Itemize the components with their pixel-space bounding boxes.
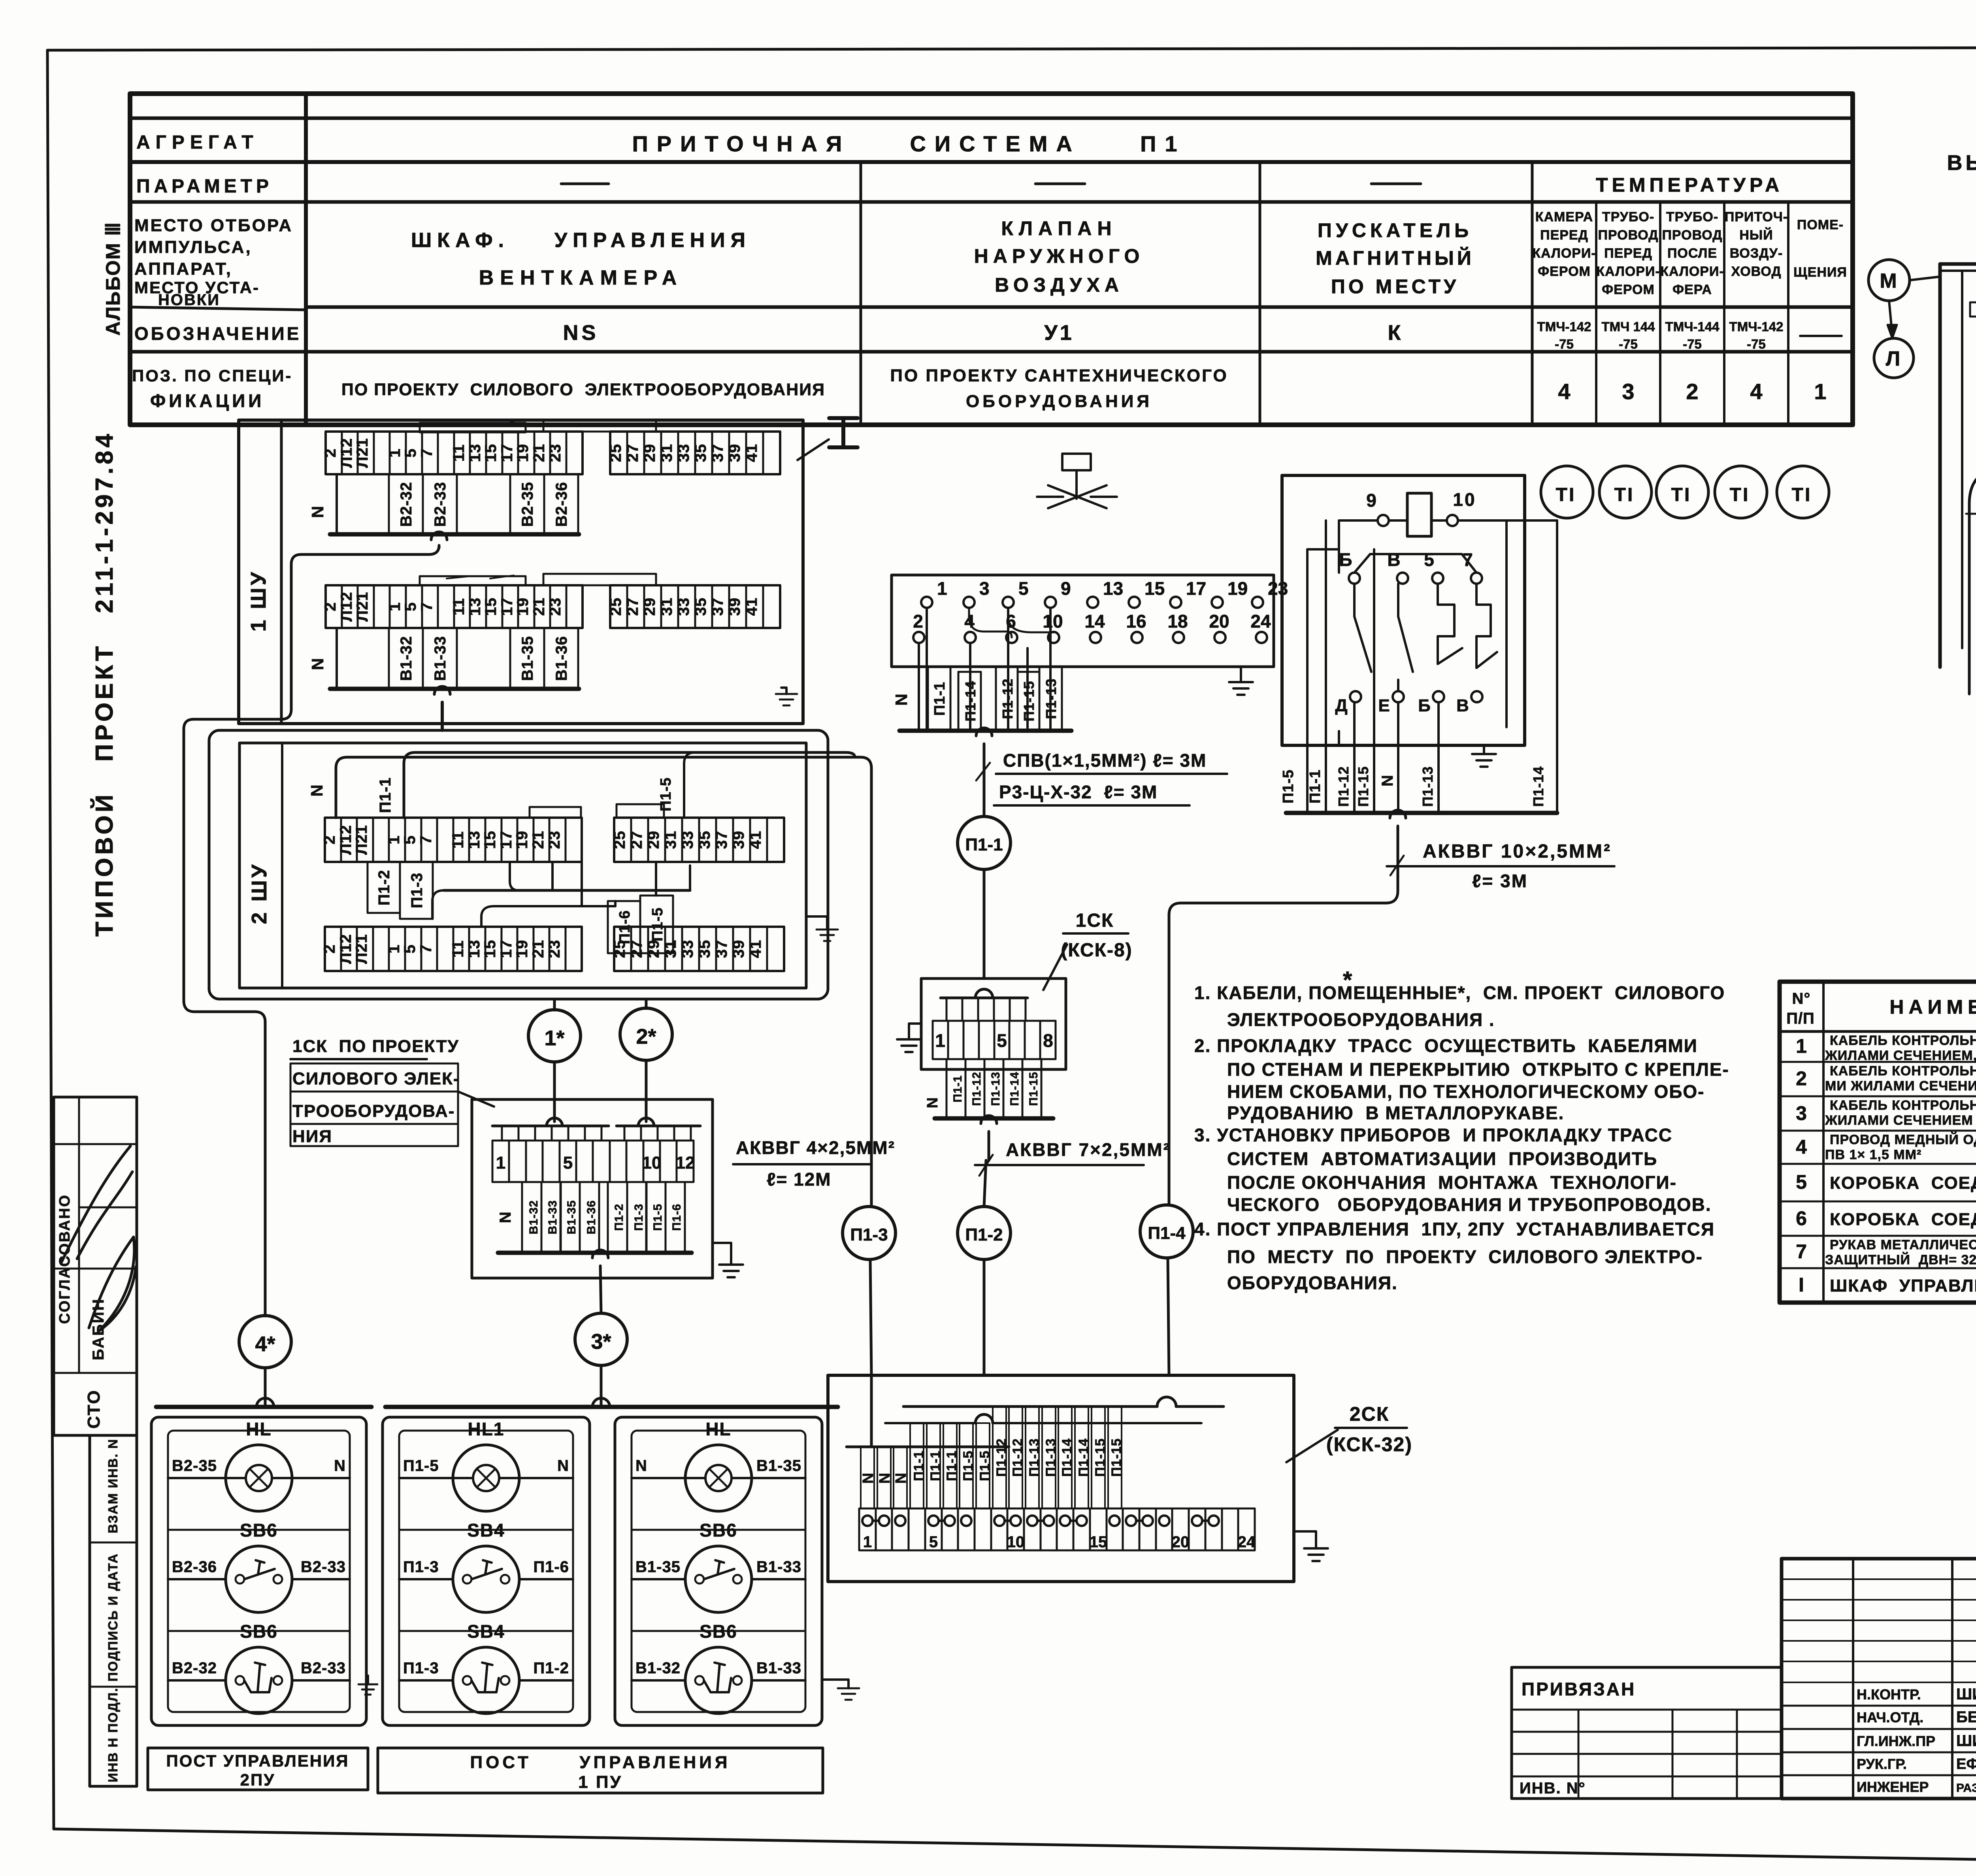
svg-text:П1-3: П1-3 — [408, 873, 426, 909]
svg-text:воздуха: воздуха — [995, 274, 1124, 296]
svg-text:П1-15: П1-15 — [1021, 681, 1037, 722]
post circle 4* — [239, 1316, 291, 1368]
title block signature grid — [1852, 1559, 1854, 1799]
svg-text:В2-32: В2-32 — [172, 1659, 217, 1677]
strip X2 bottom bus — [330, 687, 579, 691]
svg-text:39: 39 — [726, 598, 743, 616]
svg-text:Н.контр.: Н.контр. — [1857, 1686, 1921, 1703]
svg-text:4*: 4* — [255, 1332, 275, 1356]
svg-text:В1-33: В1-33 — [756, 1659, 801, 1677]
svg-text:8: 8 — [1043, 1030, 1053, 1051]
svg-text:трубо-: трубо- — [1602, 209, 1654, 224]
svg-text:Кабель контрольный с алюминиев: Кабель контрольный с алюминиевы- — [1830, 1063, 1976, 1078]
wire XB to post 3* — [592, 1250, 608, 1258]
svg-text:11: 11 — [449, 940, 467, 958]
2ShU jumper comb upper — [530, 807, 581, 818]
svg-text:защитный Двн= 32мм: защитный Двн= 32мм — [1825, 1252, 1976, 1267]
2ShU ground — [806, 916, 827, 930]
svg-text:7: 7 — [1796, 1241, 1807, 1263]
svg-text:П1-15: П1-15 — [1027, 1072, 1040, 1106]
svg-text:33: 33 — [675, 598, 692, 616]
svg-text:31: 31 — [658, 598, 675, 616]
svg-text:1: 1 — [385, 835, 403, 844]
svg-text:7: 7 — [417, 944, 435, 953]
svg-text:Камера: Камера — [1535, 209, 1593, 224]
relay box U1 body — [1282, 475, 1525, 745]
svg-text:I: I — [1799, 1274, 1804, 1296]
parts table grid — [1780, 982, 1976, 1303]
XB terminal cells — [492, 1141, 694, 1182]
svg-text:П1-1: П1-1 — [931, 682, 948, 716]
svg-text:14: 14 — [1084, 611, 1105, 632]
svg-text:N: N — [334, 1457, 346, 1474]
svg-text:HL: HL — [705, 1419, 731, 1439]
strip X1 label boxes B2-32 B2-33 B2-35 B2-36 — [389, 474, 423, 534]
svg-text:3. Установку приборов и прокл: 3. Установку приборов и прокладку трасс — [1194, 1125, 1672, 1145]
svg-text:N: N — [860, 1473, 877, 1484]
svg-text:29: 29 — [641, 598, 658, 616]
svg-text:-75: -75 — [1683, 337, 1702, 351]
U1 wires down with labels — [1306, 549, 1309, 813]
svg-text:В1-33: В1-33 — [546, 1200, 559, 1235]
svg-text:П1-14: П1-14 — [1008, 1072, 1021, 1106]
cable circle P1-3 — [843, 1207, 896, 1259]
cable circle P1-4 — [1140, 1205, 1193, 1258]
strip X1 bottom bus — [330, 532, 579, 537]
svg-text:4: 4 — [1558, 379, 1570, 404]
stamp block Согласовано — [54, 1097, 137, 1435]
svg-text:39: 39 — [730, 831, 747, 849]
svg-text:N: N — [308, 658, 327, 670]
svg-text:Привязан: Привязан — [1522, 1679, 1636, 1699]
svg-text:П1-1: П1-1 — [377, 777, 394, 813]
svg-text:3: 3 — [1622, 379, 1634, 404]
svg-text:П1-5: П1-5 — [977, 1450, 992, 1481]
svg-text:П1-15: П1-15 — [1093, 1438, 1108, 1477]
svg-text:20: 20 — [1172, 1533, 1190, 1551]
svg-text:В2-36: В2-36 — [553, 482, 570, 527]
svg-text:В2-33: В2-33 — [432, 482, 449, 527]
svg-text:Пускатель: Пускатель — [1318, 219, 1473, 241]
svg-text:П1-12: П1-12 — [1335, 766, 1352, 807]
svg-text:15: 15 — [482, 598, 500, 616]
svg-text:возду-: возду- — [1730, 246, 1783, 261]
svg-text:У1: У1 — [1044, 321, 1074, 345]
svg-text:пост управления: пост управления — [166, 1752, 349, 1770]
svg-text:П1-13: П1-13 — [1420, 766, 1436, 807]
svg-text:5: 5 — [1018, 578, 1029, 599]
svg-text:ПОДПИСЬ И ДАТА: ПОДПИСЬ И ДАТА — [106, 1553, 120, 1682]
connector XT odd pin circles — [921, 597, 932, 608]
svg-text:П1-6: П1-6 — [533, 1558, 569, 1576]
svg-text:SB6: SB6 — [240, 1520, 277, 1540]
svg-text:Инв. N°: Инв. N° — [1520, 1780, 1586, 1797]
svg-text:17: 17 — [498, 598, 516, 616]
post element HL — [226, 1445, 292, 1511]
svg-text:Место отбора: Место отбора — [134, 216, 293, 235]
svg-text:1: 1 — [863, 1533, 872, 1551]
svg-text:Агрегат: Агрегат — [136, 132, 259, 153]
svg-text:15: 15 — [481, 831, 499, 849]
cabinet 1ShU ground — [781, 688, 786, 694]
svg-text:21: 21 — [530, 444, 548, 462]
svg-text:13: 13 — [466, 940, 483, 958]
post ground symbols — [367, 1676, 369, 1684]
svg-text:Шкаф. управления: Шкаф. управления — [411, 229, 751, 252]
svg-text:2: 2 — [913, 611, 923, 632]
svg-text:Д: Д — [1335, 696, 1349, 715]
svg-text:электрооборудования .: электрооборудования . — [1227, 1009, 1495, 1030]
svg-text:трооборудова-: трооборудова- — [292, 1101, 455, 1121]
svg-text:П1-5: П1-5 — [651, 1204, 664, 1231]
svg-text:41: 41 — [743, 598, 760, 616]
svg-text:Б: Б — [1418, 696, 1432, 715]
svg-text:37: 37 — [713, 831, 730, 849]
svg-text:N: N — [877, 1473, 893, 1484]
svg-text:В: В — [1456, 696, 1471, 715]
svg-text:Кабель контрольный с алюминиев: Кабель контрольный с алюминиевыми — [1830, 1097, 1976, 1113]
svg-text:П1-13: П1-13 — [1043, 1438, 1058, 1477]
svg-text:19: 19 — [513, 940, 531, 958]
svg-text:29: 29 — [641, 444, 658, 462]
svg-text:Л12: Л12 — [338, 592, 355, 622]
svg-text:клапан: клапан — [1001, 217, 1117, 239]
svg-text:1ск по проекту: 1ск по проекту — [292, 1037, 459, 1056]
svg-text:25: 25 — [607, 444, 624, 462]
svg-text:В1-35: В1-35 — [635, 1558, 681, 1576]
svg-text:5: 5 — [563, 1153, 573, 1173]
svg-text:П1-3: П1-3 — [850, 1225, 888, 1244]
svg-text:венткамера: венткамера — [479, 266, 683, 289]
svg-text:10: 10 — [1007, 1533, 1025, 1551]
U1 bottom bus — [1286, 811, 1557, 815]
svg-text:П1-12: П1-12 — [994, 1438, 1009, 1477]
svg-text:П1-12: П1-12 — [1010, 1438, 1025, 1477]
svg-text:П1-5: П1-5 — [961, 1450, 976, 1481]
post element SB4 — [453, 1647, 519, 1714]
svg-text:ми жилами сечением 2,5мм²: ми жилами сечением 2,5мм² — [1825, 1078, 1976, 1094]
svg-text:ния: ния — [292, 1127, 332, 1146]
svg-text:трубо-: трубо- — [1666, 209, 1718, 224]
svg-text:23: 23 — [547, 598, 564, 616]
svg-text:П1-5: П1-5 — [649, 907, 666, 941]
axis arrow M to L — [1889, 301, 1892, 334]
svg-text:N: N — [557, 1457, 569, 1474]
svg-text:N: N — [1379, 775, 1396, 786]
svg-text:П1-13: П1-13 — [989, 1072, 1002, 1106]
svg-text:5: 5 — [929, 1533, 938, 1551]
svg-text:Приточная система П1: Приточная система П1 — [632, 131, 1186, 156]
svg-text:9: 9 — [1366, 490, 1378, 511]
svg-text:П1-14: П1-14 — [1060, 1438, 1075, 1477]
svg-text:5: 5 — [402, 602, 419, 611]
svg-text:рудованию в металлорукаве.: рудованию в металлорукаве. — [1227, 1103, 1564, 1123]
svg-text:3: 3 — [979, 578, 990, 599]
svg-text:21: 21 — [530, 831, 547, 849]
svg-text:Выкопировка из плана венткам: Выкопировка из плана венткамеры — [1947, 151, 1976, 175]
svg-text:ТМЧ-142: ТМЧ-142 — [1729, 319, 1784, 334]
U1 lower contacts — [1350, 691, 1361, 702]
svg-text:ческого оборудования и трубо: ческого оборудования и трубопроводов. — [1227, 1194, 1712, 1215]
svg-text:фера: фера — [1672, 282, 1712, 297]
svg-text:15: 15 — [481, 940, 499, 958]
svg-text:27: 27 — [624, 598, 641, 616]
svg-text:По проекту силового электроо: По проекту силового электрооборудования — [341, 380, 825, 399]
svg-text:N: N — [308, 505, 327, 518]
svg-text:2. Прокладку трасс осуществи: 2. Прокладку трасс осуществить кабелями — [1194, 1035, 1698, 1056]
svg-text:SB4: SB4 — [467, 1621, 505, 1642]
svg-text:Коробка соединительная: Коробка соединительная — [1830, 1173, 1976, 1193]
U1 inner frame wires — [1338, 520, 1340, 573]
U1 coil and pins 9 10 — [1407, 493, 1431, 536]
svg-text:П1-5: П1-5 — [1280, 769, 1297, 803]
svg-text:В2-36: В2-36 — [172, 1558, 217, 1576]
connector XT ground — [1240, 667, 1242, 682]
2SK ground — [1294, 1531, 1316, 1548]
svg-text:7: 7 — [418, 448, 436, 457]
svg-text:Провод медный одножильный: Провод медный одножильный — [1830, 1132, 1976, 1147]
terminal strip X1 upper cells — [326, 432, 583, 474]
svg-text:ховод: ховод — [1731, 264, 1781, 279]
connector XT wires down with labels — [918, 643, 920, 731]
svg-text:П1-1: П1-1 — [965, 835, 1003, 854]
2ShU strip lower cells — [325, 927, 582, 971]
svg-text:23: 23 — [547, 444, 564, 462]
svg-text:5: 5 — [1424, 549, 1436, 570]
svg-text:Гл.инж.пр: Гл.инж.пр — [1857, 1733, 1935, 1749]
svg-text:33: 33 — [679, 831, 696, 849]
svg-text:16: 16 — [1126, 611, 1146, 632]
svg-text:В2-35: В2-35 — [172, 1457, 217, 1474]
svg-text:перед: перед — [1604, 246, 1652, 261]
wire U1 bus to P1-4 — [1390, 810, 1406, 818]
svg-text:ℓ= 12м: ℓ= 12м — [767, 1169, 832, 1190]
1SK top bus and comb — [975, 989, 993, 998]
svg-text:41: 41 — [743, 444, 760, 462]
svg-text:10: 10 — [1043, 611, 1063, 632]
2ShU label boxes P1-2 P1-3 — [368, 862, 400, 913]
svg-text:35: 35 — [696, 940, 713, 958]
post enclosure — [615, 1417, 822, 1725]
svg-text:Параметр: Параметр — [136, 176, 273, 197]
svg-text:1: 1 — [937, 578, 947, 599]
1SK terminal cells — [933, 1021, 1056, 1059]
designator I with leader (1ShU) — [798, 439, 829, 460]
svg-text:4. Пост управления 1ПУ, 2ПУ: 4. Пост управления 1ПУ, 2ПУ устанавливае… — [1194, 1219, 1715, 1239]
page border frame — [47, 47, 1976, 50]
svg-text:В1-33: В1-33 — [756, 1558, 801, 1576]
svg-text:29: 29 — [645, 831, 662, 849]
svg-text:П1-3: П1-3 — [403, 1659, 439, 1677]
svg-text:П1-14: П1-14 — [1530, 766, 1546, 807]
svg-text:калори-: калори- — [1532, 246, 1596, 261]
svg-text:Инженер: Инженер — [1857, 1779, 1929, 1795]
svg-text:(КСК-32): (КСК-32) — [1326, 1433, 1412, 1456]
strip X1 wire N — [336, 474, 338, 534]
svg-text:нием скобами, по технологическ: нием скобами, по технологическому обо- — [1227, 1081, 1704, 1102]
svg-text:39: 39 — [726, 444, 743, 462]
svg-text:41: 41 — [747, 831, 764, 849]
svg-text:27: 27 — [628, 831, 645, 849]
svg-text:2: 2 — [1686, 379, 1698, 404]
post element HL — [685, 1445, 752, 1511]
svg-text:ℓ= 3м: ℓ= 3м — [1472, 871, 1528, 891]
svg-text:Нач.отд.: Нач.отд. — [1857, 1709, 1923, 1725]
cable circle P1-1 — [958, 816, 1011, 869]
svg-text:1*: 1* — [544, 1026, 564, 1050]
svg-text:фикации: фикации — [150, 390, 264, 411]
svg-text:Шилов: Шилов — [1956, 1686, 1976, 1703]
svg-text:1: 1 — [935, 1030, 945, 1051]
svg-text:П1-1: П1-1 — [951, 1075, 964, 1103]
post enclosure — [151, 1417, 366, 1725]
svg-text:2: 2 — [322, 602, 339, 611]
svg-text:10: 10 — [1453, 489, 1476, 510]
svg-text:после окончания монтажа техн: после окончания монтажа технологи- — [1227, 1172, 1677, 1193]
svg-text:35: 35 — [692, 598, 709, 616]
svg-text:Шилов: Шилов — [1956, 1732, 1976, 1750]
svg-text:2пу: 2пу — [240, 1770, 275, 1789]
svg-text:АКВВГ 10×2,5мм²: АКВВГ 10×2,5мм² — [1423, 841, 1612, 862]
svg-text:В2-33: В2-33 — [301, 1558, 346, 1576]
signature scrawl — [79, 1207, 137, 1209]
svg-text:П1-1: П1-1 — [911, 1450, 926, 1481]
wire risers to posts 1* 2* — [553, 999, 556, 1010]
XB bottom bus — [498, 1251, 692, 1255]
cable circle P1-2 — [958, 1207, 1011, 1259]
svg-text:31: 31 — [662, 831, 679, 849]
svg-text:37: 37 — [713, 940, 730, 958]
connector XT internal jumpers — [969, 608, 1012, 637]
svg-text:25: 25 — [611, 940, 628, 958]
svg-text:35: 35 — [692, 444, 709, 462]
svg-text:N: N — [497, 1211, 514, 1223]
svg-text:(КСК-8): (КСК-8) — [1061, 940, 1132, 961]
svg-text:12: 12 — [676, 1153, 695, 1173]
svg-text:NS: NS — [563, 321, 599, 345]
svg-text:по месту по проекту силово: по месту по проекту силового электро- — [1227, 1246, 1703, 1267]
plan air handling unit train — [1966, 513, 1976, 515]
svg-text:П1-14: П1-14 — [962, 681, 979, 722]
svg-text:Л: Л — [1886, 347, 1902, 370]
svg-text:2 шу: 2 шу — [247, 862, 271, 924]
svg-text:Л21: Л21 — [353, 934, 370, 964]
svg-text:N: N — [893, 1473, 909, 1484]
svg-text:33: 33 — [675, 444, 692, 462]
2ShU internal jumper wires — [444, 889, 690, 892]
svg-text:17: 17 — [1186, 578, 1206, 599]
svg-text:2*: 2* — [636, 1025, 656, 1048]
connector XT bottom bus — [899, 729, 1071, 733]
title block main frame — [1782, 1559, 1976, 1799]
svg-text:П1-5: П1-5 — [403, 1457, 439, 1474]
svg-text:Шкаф управления: Шкаф управления — [1830, 1276, 1976, 1295]
svg-text:по стенам и перекрытию открыт: по стенам и перекрытию открыто с крепле- — [1227, 1059, 1729, 1080]
U1 upper contacts — [1349, 573, 1360, 584]
cabinet 2ShU outer box — [209, 730, 828, 999]
post 2PU box — [156, 1405, 371, 1409]
connector XT even pin circles — [913, 632, 924, 643]
svg-text:по месту: по месту — [1331, 275, 1459, 298]
U1 switch blades — [1354, 584, 1371, 672]
svg-text:П1-1: П1-1 — [928, 1450, 943, 1481]
svg-text:23: 23 — [546, 940, 563, 958]
svg-text:15: 15 — [1144, 578, 1165, 599]
svg-text:щения: щения — [1793, 265, 1847, 280]
parameter table grid — [130, 94, 1853, 425]
1SK ground — [909, 1024, 921, 1039]
svg-text:1. Кабели, помещенные*, см. п: 1. Кабели, помещенные*, см. проект силов… — [1194, 982, 1725, 1003]
svg-text:В1-36: В1-36 — [585, 1200, 598, 1235]
svg-text:ТМЧ-144: ТМЧ-144 — [1665, 319, 1720, 334]
svg-text:N°: N° — [1792, 990, 1811, 1007]
svg-text:В: В — [1387, 549, 1402, 570]
svg-text:10: 10 — [642, 1153, 662, 1173]
post 1PU title box — [378, 1748, 823, 1793]
svg-text:23: 23 — [1268, 578, 1288, 599]
svg-text:п/п: п/п — [1786, 1010, 1815, 1027]
svg-text:В2-33: В2-33 — [301, 1659, 346, 1677]
svg-text:ТI: ТI — [1671, 485, 1691, 505]
svg-text:ТI: ТI — [1614, 485, 1635, 505]
svg-text:БАБИН: БАБИН — [90, 1298, 107, 1361]
svg-text:П1-15: П1-15 — [1355, 766, 1371, 807]
svg-text:В2-32: В2-32 — [398, 482, 415, 527]
svg-text:импульса,: импульса, — [134, 238, 252, 257]
svg-text:ИНВ Н ПОДЛ.: ИНВ Н ПОДЛ. — [106, 1687, 120, 1782]
2SK incoming wire bumps and buses — [1157, 1397, 1176, 1407]
svg-text:систем автоматизации произво: систем автоматизации производить — [1227, 1148, 1657, 1169]
svg-text:-75: -75 — [1555, 337, 1574, 351]
svg-text:1: 1 — [1814, 379, 1826, 404]
wire P1-1 down to box 1SK — [976, 728, 992, 736]
table row Параметр dashes — [561, 183, 609, 185]
svg-text:1 пу: 1 пу — [578, 1772, 622, 1792]
svg-text:Коробка соединительная: Коробка соединительная — [1830, 1210, 1976, 1229]
wire 1SK to P1-2 — [981, 1116, 997, 1124]
2ShU label boxes P1-6 P1-5 — [608, 901, 640, 953]
svg-text:калори-: калори- — [1596, 264, 1660, 279]
svg-text:3*: 3* — [591, 1330, 611, 1354]
svg-text:аппарат,: аппарат, — [134, 259, 232, 279]
svg-text:магнитный: магнитный — [1316, 247, 1474, 269]
svg-text:1: 1 — [496, 1153, 505, 1173]
svg-text:N: N — [307, 784, 326, 796]
svg-text:АКВВГ 4×2,5мм²: АКВВГ 4×2,5мм² — [736, 1137, 895, 1158]
svg-text:2: 2 — [321, 944, 338, 953]
svg-text:П1-15: П1-15 — [1109, 1438, 1124, 1477]
svg-text:37: 37 — [709, 598, 726, 616]
svg-text:П1-2: П1-2 — [965, 1225, 1003, 1244]
svg-text:20: 20 — [1209, 611, 1229, 632]
svg-text:Температура: Температура — [1596, 174, 1783, 196]
svg-text:Р3-Ц-Х-32 ℓ= 3м: Р3-Ц-Х-32 ℓ= 3м — [999, 782, 1158, 802]
XB label boxes — [522, 1182, 541, 1253]
svg-text:13: 13 — [466, 831, 483, 849]
svg-text:перед: перед — [1540, 228, 1588, 243]
svg-text:ный: ный — [1739, 227, 1773, 243]
strip X2 label boxes B1-32 B1-33 B1-35 B1-36 — [389, 628, 423, 689]
svg-text:*: * — [1343, 967, 1352, 993]
svg-text:В1-32: В1-32 — [398, 636, 415, 681]
svg-text:Рукав металлический гибкий: Рукав металлический гибкий — [1830, 1237, 1976, 1252]
svg-text:Альбом Ⅲ: Альбом Ⅲ — [102, 222, 124, 336]
svg-text:В1-36: В1-36 — [553, 636, 570, 681]
svg-text:9: 9 — [1061, 578, 1071, 599]
svg-text:17: 17 — [498, 940, 515, 958]
svg-text:1: 1 — [386, 602, 403, 611]
plan duct elbow — [1969, 468, 1976, 694]
